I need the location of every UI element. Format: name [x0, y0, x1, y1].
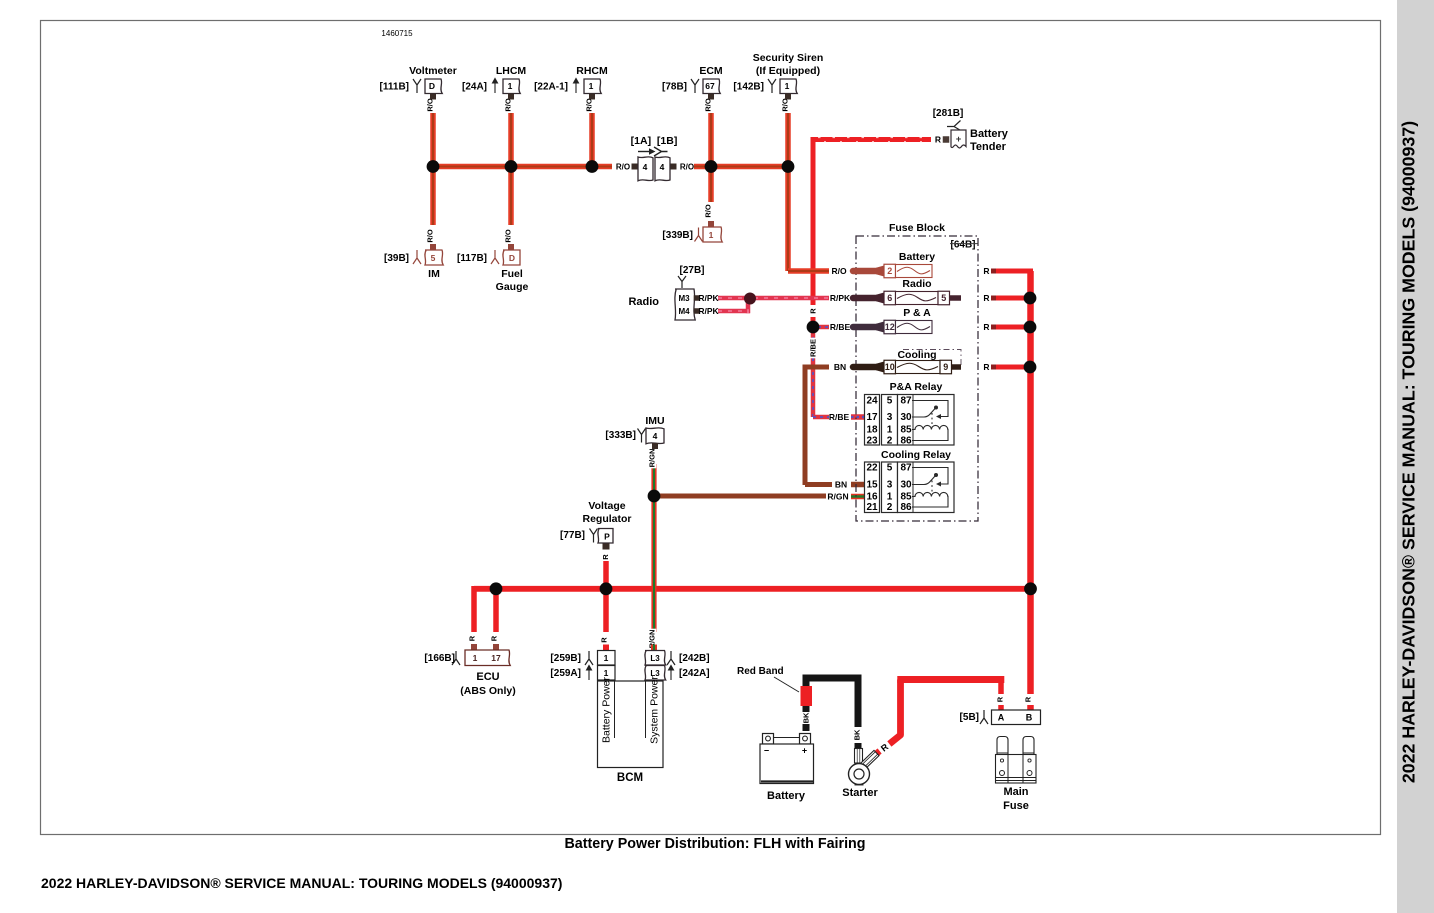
terminal square at battery tender — [943, 136, 950, 143]
grey sidebar band — [1397, 0, 1434, 913]
svg-text:Main: Main — [1003, 786, 1028, 798]
wire R voltage regulator drop — [603, 561, 609, 589]
wire R/O siren branch down to fuse block — [785, 167, 791, 272]
svg-text:IMU: IMU — [645, 415, 664, 427]
svg-text:ECU: ECU — [476, 671, 499, 683]
label BK starter cable — [853, 729, 862, 741]
svg-text:18: 18 — [866, 425, 878, 436]
svg-text:1: 1 — [508, 81, 513, 91]
svg-text:[111B]: [111B] — [380, 82, 409, 93]
svg-text:R/O: R/O — [504, 98, 513, 112]
label R/O siren drop — [781, 97, 790, 113]
svg-text:1: 1 — [709, 230, 714, 240]
svg-text:BN: BN — [834, 362, 846, 372]
svg-text:R: R — [935, 135, 941, 145]
wire R/PK radio M4 riser — [746, 296, 751, 313]
P&amp;A Relay body box — [898, 395, 955, 446]
svg-text:86: 86 — [900, 436, 912, 447]
connector [39B] pin box — [425, 250, 443, 265]
svg-text:Fuel: Fuel — [501, 268, 523, 280]
wire R/O drop to voltmeter — [430, 113, 436, 167]
Cooling Relay switch contact 87 — [912, 468, 948, 485]
svg-text:16: 16 — [866, 492, 878, 503]
wire R starter diagonal segment 1 — [876, 749, 882, 754]
battery negative terminal — [763, 734, 774, 745]
junction siren bus — [782, 160, 795, 173]
svg-text:R/O: R/O — [504, 229, 513, 243]
terminal square right of [1B] — [671, 164, 677, 170]
connector [259B] pin box — [598, 651, 616, 666]
svg-text:Battery: Battery — [970, 128, 1009, 140]
label R ECU pin1 — [468, 635, 477, 642]
mating symbol at [333B] — [638, 429, 646, 443]
connector symbol for [22A-1] — [574, 79, 579, 94]
terminal square above [39B] — [430, 244, 436, 250]
svg-text:[27B]: [27B] — [679, 265, 704, 276]
terminal square below [111B] — [430, 94, 436, 100]
mating symbol at [27B] — [678, 276, 686, 288]
wire R/BE branch to fuse 12 — [818, 325, 829, 330]
wire stub at BCM system power — [651, 645, 657, 651]
wire R/BE stub at relay pin 17 — [851, 414, 865, 420]
svg-text:2: 2 — [887, 502, 893, 513]
svg-text:R: R — [983, 362, 989, 372]
starter ring terminal — [849, 764, 870, 785]
svg-text:R: R — [600, 637, 609, 643]
mating symbol at [117B] — [491, 250, 499, 264]
svg-text:R/O: R/O — [426, 229, 435, 243]
wire R main fuse A drop — [998, 680, 1004, 695]
wire R ECU pin1 drop — [471, 586, 477, 632]
svg-text:[166B]: [166B] — [424, 653, 455, 664]
svg-text:Fuse: Fuse — [1003, 800, 1029, 812]
connector [78B] pin box — [703, 79, 720, 94]
wire R BCM battery power drop — [603, 589, 609, 632]
fuse Radio right pin box — [938, 291, 950, 305]
terminal square below [77B] — [603, 544, 610, 550]
wire R/O voltmeter branch down to [39B] — [430, 167, 436, 226]
svg-text:[39B]: [39B] — [384, 253, 409, 264]
junction RHCM bus — [586, 160, 599, 173]
main fuse body — [996, 755, 1037, 784]
svg-text:R/BE: R/BE — [809, 339, 818, 357]
svg-text:5: 5 — [887, 463, 893, 474]
connector [22A-1] pin box — [584, 79, 601, 94]
svg-text:(If Equipped): (If Equipped) — [756, 65, 820, 77]
label R main fuse A — [996, 696, 1005, 703]
connector [77B] pin box — [598, 529, 613, 544]
P&amp;A Relay armature dashed link — [931, 413, 933, 427]
svg-text:R: R — [983, 293, 989, 303]
svg-text:Battery Power: Battery Power — [601, 677, 613, 743]
fuse block sub-border near cooling fuse — [903, 350, 961, 366]
terminal square below [24A] — [508, 94, 514, 100]
mating symbol at [242B] — [667, 651, 675, 665]
svg-text:2022 HARLEY-DAVIDSON® SERVICE: 2022 HARLEY-DAVIDSON® SERVICE MANUAL: TO… — [1399, 121, 1419, 783]
svg-text:R: R — [490, 635, 499, 641]
svg-text:5: 5 — [887, 396, 893, 407]
junction ECU pin17 — [490, 582, 503, 595]
junction cooling fuse bus — [1024, 361, 1037, 374]
BCM system power column line — [645, 681, 647, 738]
svg-text:[5B]: [5B] — [960, 712, 979, 723]
connector [166B] box — [465, 650, 510, 666]
mating symbol at [39B] — [413, 250, 421, 264]
svg-text:R/BE: R/BE — [830, 322, 851, 332]
inline connector mating arrows — [638, 151, 650, 153]
svg-text:R: R — [601, 554, 610, 560]
connector [339B] pin box — [703, 227, 722, 242]
svg-text:RHCM: RHCM — [576, 65, 608, 77]
svg-text:Radio: Radio — [902, 278, 931, 290]
svg-text:IM: IM — [428, 268, 440, 280]
svg-text:Voltage: Voltage — [588, 500, 625, 512]
P&amp;A Relay outer pin box — [865, 395, 880, 446]
junction radio fuse bus — [1024, 292, 1037, 305]
fuse Cooling output lead — [952, 364, 962, 370]
battery terminal link line — [774, 737, 800, 739]
svg-text:M3: M3 — [678, 294, 690, 303]
svg-text:R: R — [809, 308, 818, 314]
wire R battery fuse output — [996, 269, 1033, 274]
svg-text:Red Band: Red Band — [737, 666, 784, 677]
svg-text:24: 24 — [866, 396, 878, 407]
red band leader line — [774, 677, 799, 692]
junction voltmeter bus — [427, 160, 440, 173]
connector [242A] pin box — [645, 666, 666, 681]
svg-text:5: 5 — [431, 253, 436, 263]
svg-text:P&A Relay: P&A Relay — [890, 381, 943, 393]
battery body — [760, 744, 814, 784]
Cooling Relay middle pin box — [882, 462, 898, 513]
Cooling Relay armature dashed link — [931, 481, 933, 495]
wire R ECU pin17 drop — [493, 589, 499, 632]
wire BK top horizontal — [803, 675, 862, 682]
svg-text:[117B]: [117B] — [457, 253, 487, 264]
svg-text:Regulator: Regulator — [582, 513, 631, 525]
label R ECU pin17 — [490, 635, 499, 642]
svg-text:[24A]: [24A] — [462, 82, 487, 93]
label R voltage regulator — [601, 554, 610, 561]
svg-text:R/GN: R/GN — [827, 492, 848, 502]
fuse Cooling input lead — [853, 364, 880, 371]
svg-text:[242B]: [242B] — [679, 653, 710, 664]
svg-text:Battery: Battery — [767, 790, 806, 802]
junction p&amp;a fuse bus — [1024, 321, 1037, 334]
svg-text:[1A] [1B]: [1A] [1B] — [631, 135, 678, 147]
svg-text:Cooling Relay: Cooling Relay — [881, 449, 951, 461]
P&amp;A Relay coil — [912, 425, 948, 440]
wire R/PK radio M3 — [718, 296, 745, 301]
battery positive terminal — [800, 734, 811, 745]
svg-text:Tender: Tender — [970, 141, 1007, 153]
label R/GN at BCM — [648, 629, 657, 650]
main fuse blade base ticks — [997, 752, 1009, 754]
wire R/O drop to ECM — [708, 113, 714, 167]
svg-text:[333B]: [333B] — [605, 430, 636, 441]
label R starter cable — [877, 740, 893, 755]
svg-text:15: 15 — [866, 480, 878, 491]
mating symbol at [259B] — [585, 651, 593, 665]
svg-text:4: 4 — [643, 162, 648, 172]
fuse Cooling left pin box — [884, 360, 896, 374]
connector [1A] pin box — [638, 157, 653, 181]
svg-text:2022 HARLEY-DAVIDSON® SERVICE: 2022 HARLEY-DAVIDSON® SERVICE MANUAL: TO… — [41, 875, 562, 891]
svg-text:ECM: ECM — [699, 65, 723, 77]
svg-text:[64B]: [64B] — [950, 240, 975, 251]
svg-text:R/O: R/O — [616, 162, 630, 171]
svg-text:R: R — [983, 322, 989, 332]
svg-text:87: 87 — [900, 396, 912, 407]
P&amp;A Relay switch contact 87 — [912, 401, 948, 417]
wire R/PK radio M4 — [718, 309, 750, 314]
wire R/O ECM branch down to [339B] — [708, 167, 714, 203]
junction R/BE branch — [807, 321, 820, 334]
connector symbol for [142B] — [768, 79, 776, 93]
svg-text:+: + — [956, 134, 962, 145]
svg-text:12: 12 — [885, 322, 895, 332]
wire R starter horizontal to main fuse A — [897, 676, 1004, 683]
svg-text:P: P — [604, 532, 610, 542]
connector [142B] pin box — [780, 79, 797, 94]
label BK battery cable — [802, 712, 811, 724]
wire BN from cooling fuse — [805, 365, 829, 370]
svg-text:1: 1 — [785, 81, 790, 91]
svg-text:R/PK: R/PK — [698, 293, 719, 303]
svg-text:2: 2 — [887, 266, 892, 276]
connector [259A] pin box — [598, 666, 616, 681]
label R/O ECM drop — [704, 97, 713, 113]
svg-text:R/O: R/O — [426, 98, 435, 112]
svg-text:BN: BN — [835, 480, 847, 490]
svg-text:BCM: BCM — [617, 772, 643, 784]
svg-text:R/O: R/O — [781, 98, 790, 112]
svg-text:9: 9 — [943, 362, 948, 372]
terminal square radio M4 — [694, 308, 700, 314]
svg-text:(ABS Only): (ABS Only) — [460, 685, 515, 697]
label R/O ECM lower — [704, 203, 713, 219]
svg-text:87: 87 — [900, 463, 912, 474]
wire R fuse block vertical bus — [1027, 271, 1034, 694]
fuse Radio body — [896, 292, 939, 305]
svg-text:1: 1 — [887, 492, 893, 503]
svg-text:3: 3 — [887, 412, 893, 423]
fuse Battery body — [896, 265, 933, 278]
leader line through [64B] — [950, 243, 979, 245]
svg-text:1: 1 — [604, 668, 609, 678]
fuse Battery left pin box — [884, 264, 896, 278]
terminal square above [339B] — [708, 221, 714, 227]
starter ring terminal stem diagonal — [861, 750, 879, 768]
junction ECM bus — [705, 160, 718, 173]
wire R/O drop to security siren — [785, 113, 791, 167]
junction lower bus to main fuse — [1024, 582, 1037, 595]
svg-text:BK: BK — [853, 729, 862, 740]
wire R/GN IMU drop — [651, 464, 656, 496]
wire BK starter drop — [855, 678, 862, 727]
svg-text:[242A]: [242A] — [679, 668, 710, 679]
connector [1B] pin box — [655, 157, 670, 181]
svg-text:R/O: R/O — [704, 204, 713, 218]
connector [117B] pin box — [503, 250, 520, 265]
svg-text:10: 10 — [885, 362, 895, 372]
Cooling Relay outer pin box — [865, 462, 880, 513]
svg-text:85: 85 — [900, 492, 912, 503]
wire R battery tender horizontal — [811, 137, 932, 142]
starter ring terminal stem vertical — [855, 749, 863, 764]
Cooling Relay switch arm from 30 — [912, 476, 936, 485]
wire R/O bus segment right — [694, 164, 788, 170]
wire stub at BCM battery power — [603, 645, 609, 651]
svg-text:[22A-1]: [22A-1] — [534, 82, 568, 93]
svg-text:P & A: P & A — [903, 307, 931, 319]
svg-text:4: 4 — [660, 162, 665, 172]
junction radio R/PK — [744, 293, 756, 305]
label R/O LHCM drop — [504, 97, 513, 113]
junction IMU R/GN — [648, 490, 661, 503]
label R/O voltmeter lower — [426, 228, 435, 244]
wire R radio fuse output — [996, 296, 1030, 301]
fuse Radio input lead — [853, 295, 880, 302]
connector symbol for [111B] — [413, 79, 421, 93]
svg-text:Battery: Battery — [899, 251, 935, 263]
svg-text:23: 23 — [866, 436, 878, 447]
label R/O LHCM lower — [504, 228, 513, 244]
wire R main lower bus — [474, 586, 1030, 592]
wire R/O drop to RHCM — [589, 113, 595, 167]
svg-text:6: 6 — [887, 293, 892, 303]
terminal square left of [1A] — [632, 164, 638, 170]
svg-text:A: A — [998, 713, 1005, 723]
connector symbol for [78B] — [691, 79, 699, 93]
svg-text:Cooling: Cooling — [897, 349, 936, 361]
svg-text:22: 22 — [866, 463, 878, 474]
connector [27B] box — [675, 289, 695, 320]
connector [281B] pin box — [951, 130, 966, 148]
label R main fuse B — [1024, 696, 1033, 703]
label R/BE on vertical — [809, 338, 818, 359]
fuse P &amp; A body — [896, 321, 933, 334]
svg-text:M4: M4 — [678, 307, 690, 316]
terminal square below [22A-1] — [589, 94, 595, 100]
terminal square below [78B] — [708, 94, 714, 100]
svg-text:[259B]: [259B] — [550, 653, 581, 664]
wire R p&amp;a fuse output — [996, 325, 1030, 330]
wire R/O drop to LHCM — [508, 113, 514, 167]
svg-text:Starter: Starter — [842, 787, 878, 799]
svg-text:R: R — [996, 696, 1005, 702]
svg-text:Fuse Block: Fuse Block — [889, 222, 945, 234]
terminal square ECU pin1 — [471, 644, 477, 650]
svg-text:LHCM: LHCM — [496, 65, 527, 77]
wire R/BE vertical to P&amp;A relay — [811, 330, 816, 417]
svg-text:1: 1 — [887, 425, 893, 436]
terminal square above [117B] — [508, 244, 514, 250]
wire BK battery positive riser — [803, 682, 810, 688]
svg-text:5: 5 — [941, 293, 946, 303]
svg-text:30: 30 — [900, 412, 912, 423]
connector [24A] pin box — [503, 79, 520, 94]
mating symbol at [281B] — [947, 121, 962, 132]
wire R/GN stub at cooling relay pin 16 — [851, 494, 865, 500]
svg-text:Voltmeter: Voltmeter — [409, 65, 457, 77]
svg-text:R/BE: R/BE — [829, 412, 850, 422]
svg-text:R: R — [1024, 696, 1033, 702]
svg-text:B: B — [1026, 713, 1033, 723]
label R/O voltmeter drop — [426, 97, 435, 113]
svg-text:85: 85 — [900, 425, 912, 436]
mating symbol at [166B] — [452, 651, 460, 665]
svg-text:1: 1 — [473, 653, 478, 663]
wire R battery tender vertical — [811, 137, 816, 305]
terminal square radio M3 — [694, 295, 700, 301]
mating symbol at [77B] — [590, 529, 598, 543]
wire R/O horizontal into fuse block — [788, 268, 829, 274]
svg-text:R/O: R/O — [704, 98, 713, 112]
junction voltage regulator — [600, 582, 613, 595]
fuse block dash-dot border [64B] — [856, 236, 978, 521]
wire R cooling fuse output — [996, 365, 1030, 370]
fuse P &amp; A left pin box — [884, 320, 896, 334]
wire R/O LHCM branch down to [117B] — [508, 167, 514, 226]
mating symbol at [339B] — [695, 228, 703, 242]
svg-text:67: 67 — [705, 81, 715, 91]
svg-text:R: R — [468, 635, 477, 641]
main fuse blade left — [997, 737, 1008, 756]
svg-text:−: − — [764, 746, 769, 756]
BCM battery power column line — [614, 681, 616, 738]
terminal square below [142B] — [785, 94, 791, 100]
fuse Radio output lead — [950, 295, 962, 301]
Cooling Relay body box — [898, 462, 955, 513]
svg-text:D: D — [429, 81, 435, 91]
svg-text:+: + — [802, 746, 807, 756]
svg-text:L3: L3 — [650, 654, 660, 663]
Cooling Relay coil — [912, 492, 948, 507]
svg-text:R/O: R/O — [831, 266, 847, 276]
svg-text:86: 86 — [900, 502, 912, 513]
label R/GN IMU drop — [648, 448, 657, 469]
svg-text:R/O: R/O — [680, 162, 694, 171]
svg-text:30: 30 — [900, 480, 912, 491]
label R at BCM battery power — [600, 637, 609, 644]
wire BN vertical — [803, 365, 808, 486]
arrow symbol at [242A] — [669, 666, 674, 681]
connector [242B] pin box — [645, 651, 666, 666]
junction LHCM bus — [505, 160, 518, 173]
svg-text:4: 4 — [653, 431, 658, 441]
svg-text:21: 21 — [866, 502, 878, 513]
wire R/GN long horizontal from IMU junction — [654, 494, 826, 499]
svg-text:[259A]: [259A] — [550, 668, 581, 679]
svg-text:R/O: R/O — [585, 98, 594, 112]
svg-text:[78B]: [78B] — [662, 82, 687, 93]
main fuse blade right — [1023, 737, 1034, 756]
svg-text:[339B]: [339B] — [662, 230, 693, 241]
wire R/PK to fuse block — [754, 296, 829, 301]
terminal squares at fuse outputs — [991, 269, 996, 274]
svg-text:BK: BK — [802, 712, 811, 723]
svg-text:R: R — [983, 266, 989, 276]
fuse Battery input lead — [853, 268, 880, 275]
svg-text:1460715: 1460715 — [381, 29, 413, 38]
connector symbol for [24A] — [493, 79, 498, 94]
svg-text:Gauge: Gauge — [496, 281, 529, 293]
svg-text:D: D — [509, 253, 515, 263]
mating symbol at [5B] — [980, 710, 988, 724]
fuse P &amp; A input lead — [853, 324, 880, 331]
BCM body box — [598, 681, 664, 768]
